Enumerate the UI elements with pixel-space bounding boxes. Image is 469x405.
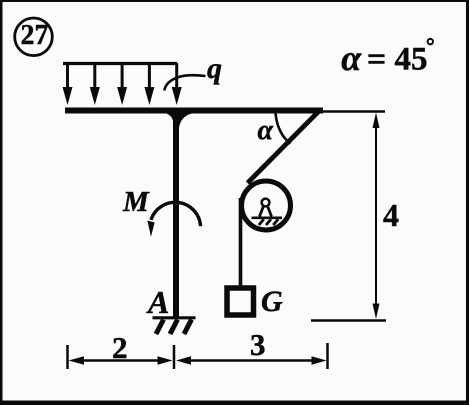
svg-text:α: α (341, 38, 362, 78)
svg-text:4: 4 (383, 197, 399, 233)
svg-text:3: 3 (250, 327, 266, 362)
svg-text:2: 2 (112, 330, 128, 365)
svg-text:M: M (122, 186, 150, 218)
svg-text:45: 45 (395, 42, 428, 78)
svg-text:=: = (367, 41, 386, 78)
svg-text:q: q (207, 52, 222, 85)
svg-text:G: G (261, 285, 283, 318)
svg-text:27: 27 (21, 20, 49, 51)
svg-text:A: A (146, 284, 169, 320)
svg-text:α: α (258, 115, 274, 146)
